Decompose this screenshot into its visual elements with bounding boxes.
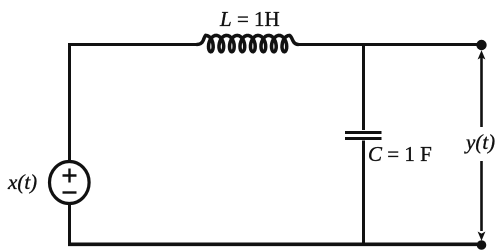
wire top-left <box>70 45 197 164</box>
wire arrow upper segment <box>480 57 483 127</box>
node dot top-right <box>476 40 486 50</box>
svg-text:x(t): x(t) <box>7 170 37 194</box>
arrowhead up <box>478 50 486 59</box>
inductor L1 <box>197 35 299 51</box>
svg-text:y(t): y(t) <box>464 130 495 154</box>
source V1 circle <box>50 162 90 204</box>
wire bottom <box>68 243 482 247</box>
capacitor C1 bottom plate <box>345 137 382 140</box>
source minus sign <box>63 191 77 193</box>
wire capacitor branch upper <box>362 45 365 131</box>
svg-text:C = 1 F: C = 1 F <box>368 142 432 166</box>
capacitor C1 top plate <box>345 131 382 134</box>
node dot bottom-right <box>477 240 487 250</box>
svg-text:L = 1H: L = 1H <box>219 7 280 31</box>
wire top-right <box>299 43 482 46</box>
arrowhead down <box>478 232 486 241</box>
source plus sign <box>63 169 77 183</box>
wire left lower <box>68 204 71 245</box>
wire arrow lower segment <box>480 161 483 231</box>
wire capacitor branch lower <box>362 141 365 245</box>
